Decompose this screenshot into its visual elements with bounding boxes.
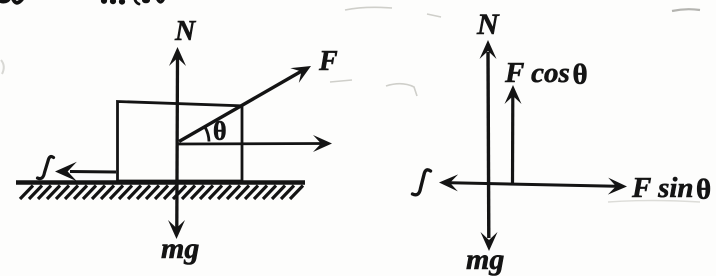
faint scan dash top-right [672,9,700,11]
svg-text:N: N [476,8,500,41]
svg-text:mg: mg [161,232,199,265]
svg-text:θ: θ [573,59,588,91]
horizontal arrow to right [177,142,324,145]
label f (left) [38,157,54,179]
svg-text:F sin: F sin [631,172,694,204]
faint scan mark left edge [1,60,4,74]
svg-text:mg: mg [466,243,504,276]
label f (right) [413,170,431,195]
ground hatching [20,186,303,200]
svg-text:N: N [174,16,197,47]
faint scan smudges [330,7,417,96]
mg arrowhead [168,220,185,239]
F cos theta arrow [511,96,514,184]
ground [16,180,305,185]
cropped text fragment "... (c)" top-centre [101,0,164,5]
svg-text:θ: θ [213,117,227,146]
friction f arrow (left) [70,170,116,174]
N arrowhead [169,47,186,66]
cropped text fragment "b)" top-left [0,0,23,4]
svg-text:F cos: F cos [504,57,570,89]
angle arc [205,127,209,142]
horizontal f / F sin theta line [445,183,616,187]
N / mg vertical line through block [175,58,179,228]
svg-text:θ: θ [696,174,711,206]
block (rectangle) [118,102,243,182]
svg-text:F: F [318,46,338,77]
F arrow (diagonal) [179,70,304,142]
N / mg vertical line [486,52,490,238]
